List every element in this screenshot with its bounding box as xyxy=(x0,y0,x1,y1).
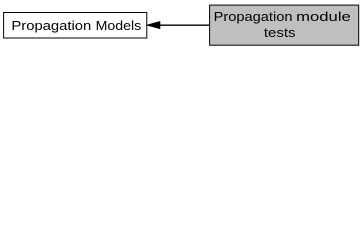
arrowhead pointing left at Propagation Models box xyxy=(147,22,159,29)
wire: edge line from tests box to arrowhead xyxy=(159,24,209,26)
doxygen-style module dependency graph xyxy=(0,0,363,51)
svg-text:module: module xyxy=(296,9,351,24)
svg-text:Propagation: Propagation xyxy=(214,9,293,24)
svg-text:tests: tests xyxy=(264,25,296,40)
node: Propagation Models (box) xyxy=(4,13,147,39)
svg-text:Propagation: Propagation xyxy=(11,18,91,33)
svg-text:Models: Models xyxy=(96,18,142,33)
background xyxy=(0,0,363,51)
node: Propagation module tests (gray box) xyxy=(210,5,359,45)
